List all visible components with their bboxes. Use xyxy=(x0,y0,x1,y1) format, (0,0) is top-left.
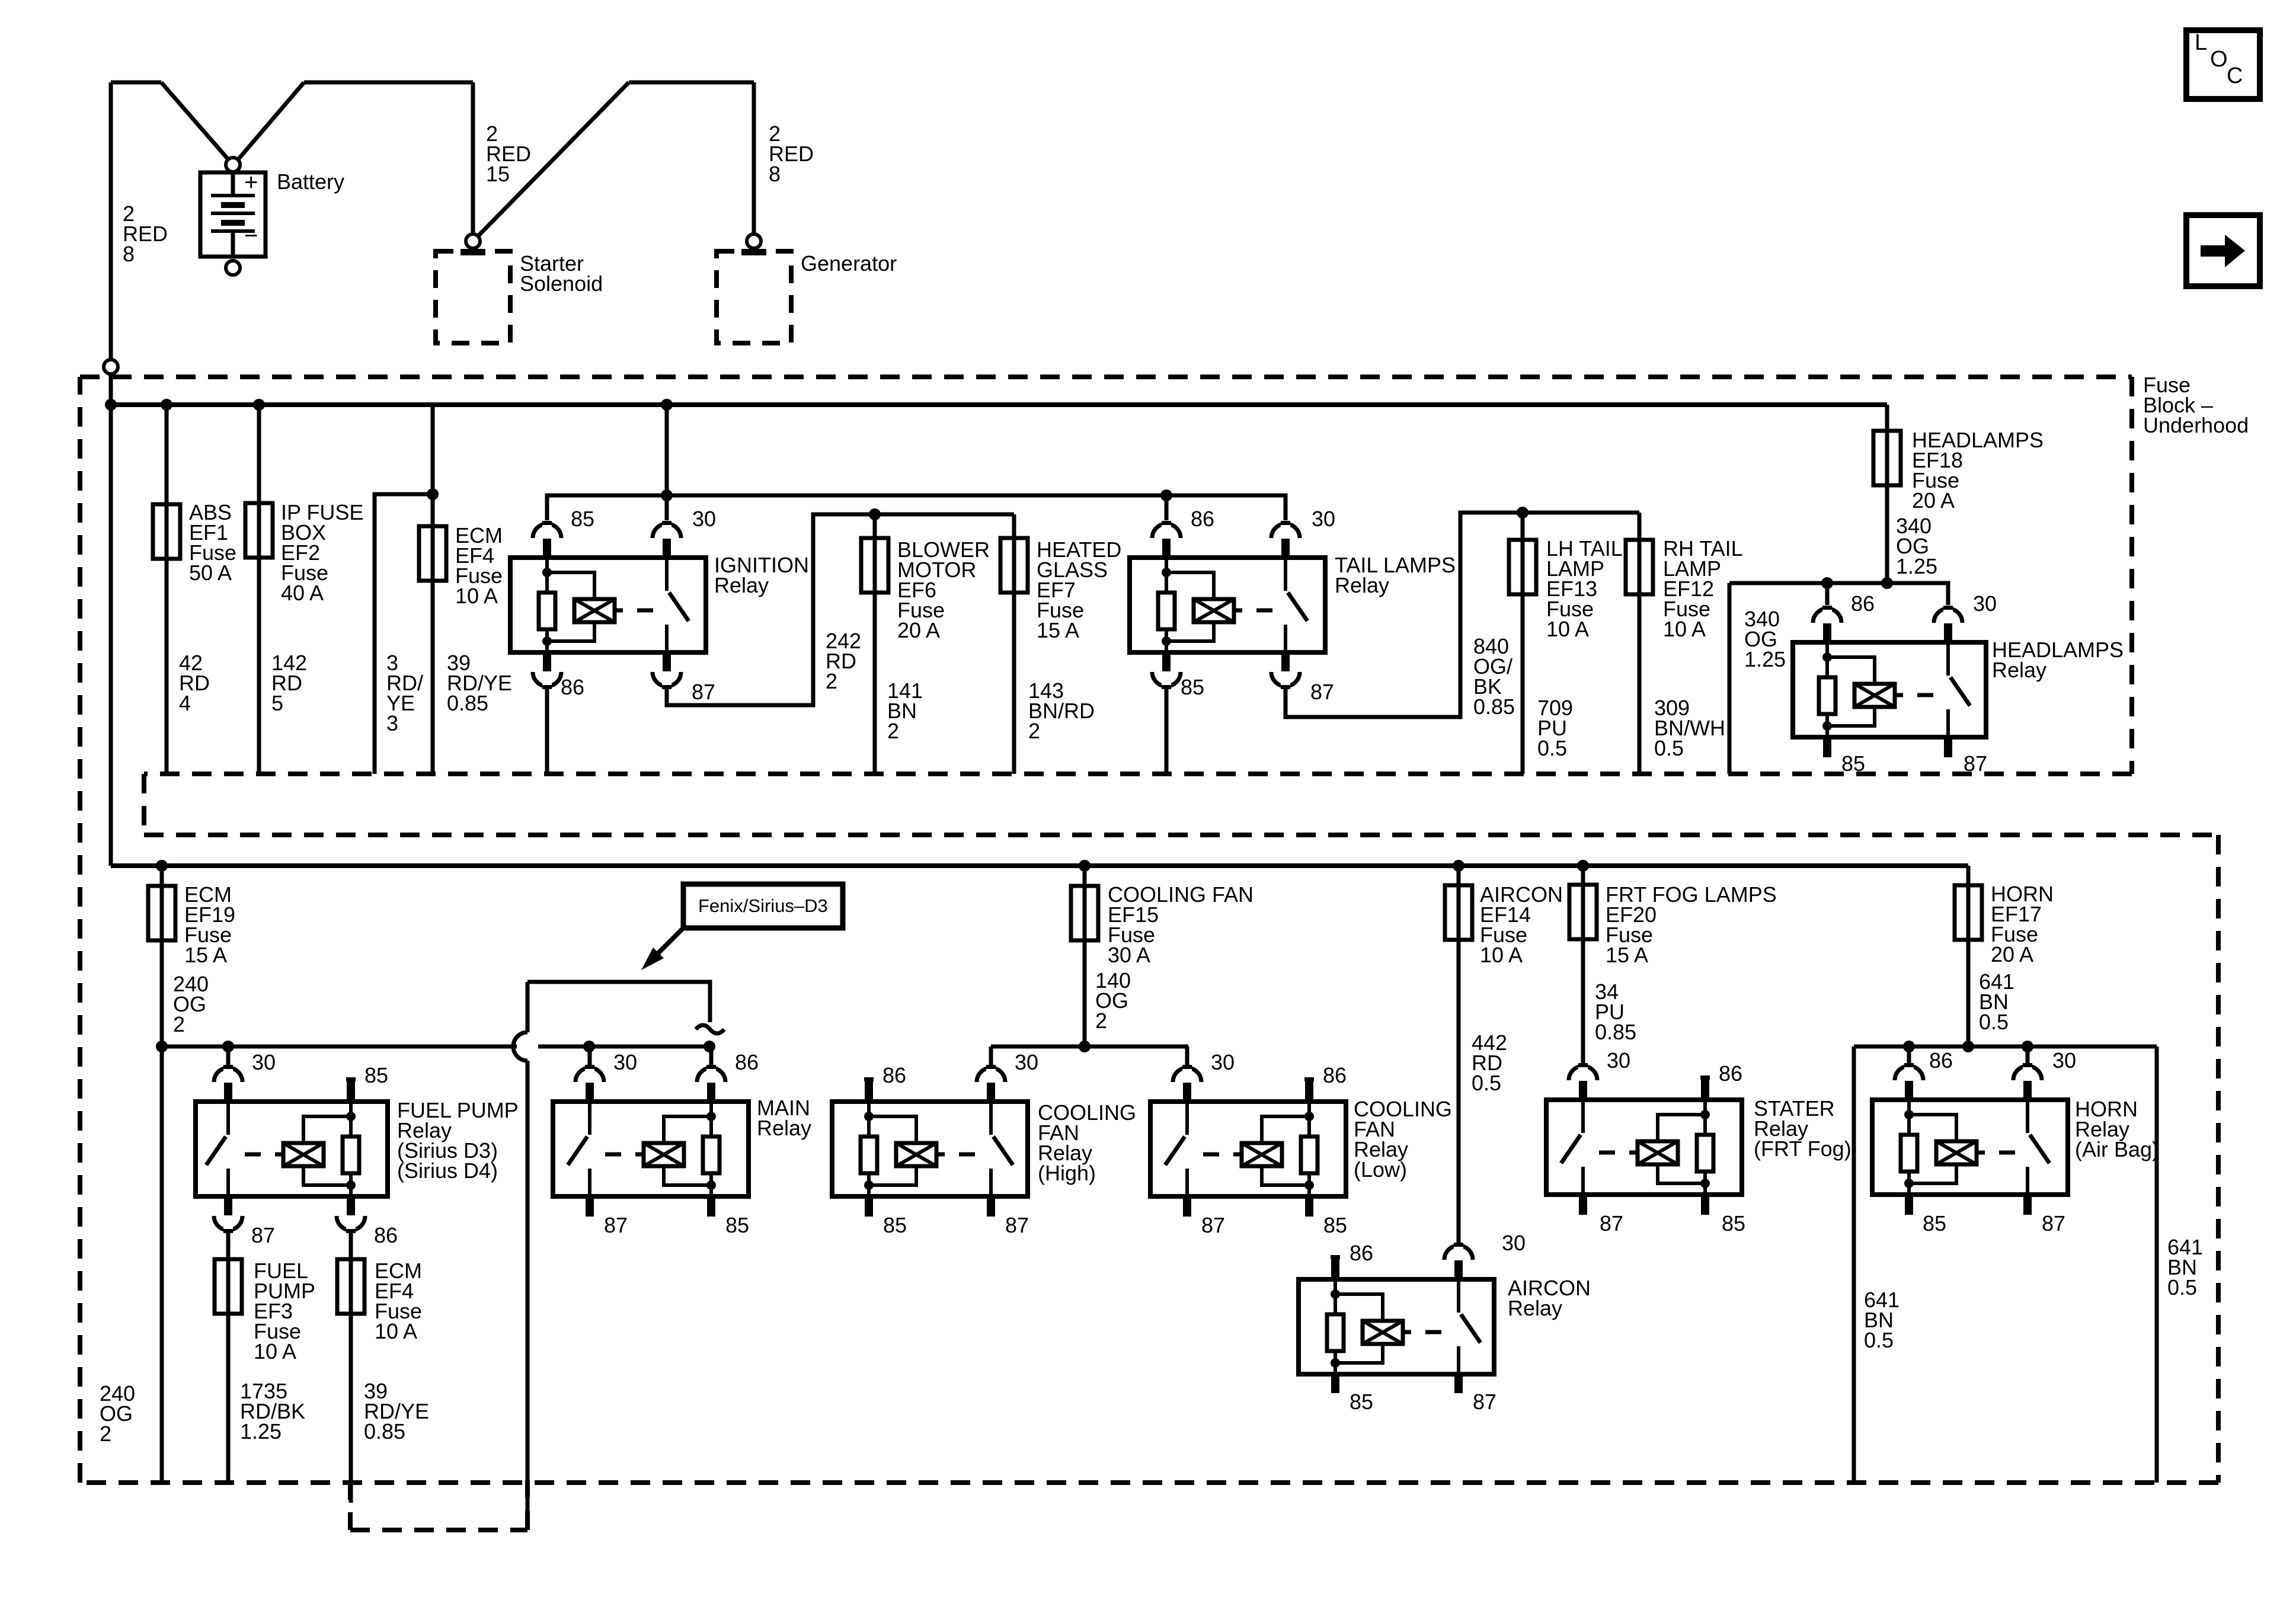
svg-text:86: 86 xyxy=(1929,1048,1953,1073)
svg-text:10 A: 10 A xyxy=(455,584,498,608)
svg-text:(Air Bag): (Air Bag) xyxy=(2075,1137,2159,1161)
svg-text:1.25: 1.25 xyxy=(1744,647,1786,671)
svg-text:15: 15 xyxy=(486,162,510,186)
svg-text:Relay: Relay xyxy=(1335,573,1389,597)
svg-text:Relay: Relay xyxy=(757,1116,811,1140)
svg-text:87: 87 xyxy=(1600,1211,1623,1235)
svg-text:0.5: 0.5 xyxy=(1654,736,1684,760)
svg-text:20 A: 20 A xyxy=(1991,942,2033,966)
svg-text:2: 2 xyxy=(100,1422,111,1446)
svg-text:87: 87 xyxy=(1201,1213,1225,1237)
svg-text:0.85: 0.85 xyxy=(447,691,488,715)
svg-text:20 A: 20 A xyxy=(897,618,940,642)
svg-text:Relay: Relay xyxy=(1992,658,2046,682)
svg-text:2: 2 xyxy=(1028,719,1040,743)
svg-text:85: 85 xyxy=(1923,1211,1946,1235)
svg-text:15 A: 15 A xyxy=(1606,943,1648,967)
svg-text:(Low): (Low) xyxy=(1354,1157,1407,1182)
svg-text:30: 30 xyxy=(1312,507,1335,531)
svg-text:0.5: 0.5 xyxy=(1537,736,1567,760)
svg-text:30: 30 xyxy=(1502,1231,1526,1255)
svg-text:85: 85 xyxy=(1722,1211,1745,1235)
svg-text:(High): (High) xyxy=(1038,1161,1096,1185)
svg-text:Relay: Relay xyxy=(714,573,769,597)
svg-text:0.5: 0.5 xyxy=(1472,1071,1501,1095)
svg-text:Underhood: Underhood xyxy=(2143,413,2249,437)
svg-text:2: 2 xyxy=(887,719,899,743)
svg-text:10 A: 10 A xyxy=(375,1319,417,1343)
svg-text:30: 30 xyxy=(692,507,716,531)
svg-text:C: C xyxy=(2227,63,2243,88)
svg-text:20 A: 20 A xyxy=(1912,488,1955,513)
svg-text:1.25: 1.25 xyxy=(240,1419,282,1443)
svg-text:85: 85 xyxy=(571,507,594,531)
svg-text:10 A: 10 A xyxy=(1663,617,1706,641)
svg-text:15 A: 15 A xyxy=(1037,618,1079,642)
svg-text:5: 5 xyxy=(271,691,283,715)
svg-text:Generator: Generator xyxy=(801,251,897,276)
svg-text:85: 85 xyxy=(1841,751,1865,776)
svg-text:0.85: 0.85 xyxy=(364,1419,405,1443)
svg-text:−: − xyxy=(244,223,258,249)
svg-text:+: + xyxy=(244,169,258,196)
svg-text:0.85: 0.85 xyxy=(1473,694,1515,719)
svg-text:0.5: 0.5 xyxy=(2167,1275,2197,1299)
svg-text:2: 2 xyxy=(1095,1009,1107,1033)
svg-text:87: 87 xyxy=(2042,1211,2065,1235)
svg-text:0.5: 0.5 xyxy=(1979,1010,2009,1034)
svg-text:86: 86 xyxy=(882,1063,906,1087)
svg-text:86: 86 xyxy=(1191,507,1214,531)
svg-text:30: 30 xyxy=(1607,1048,1630,1073)
svg-text:10 A: 10 A xyxy=(1480,943,1523,967)
svg-text:30: 30 xyxy=(1015,1050,1038,1074)
svg-text:L: L xyxy=(2195,30,2207,55)
svg-text:Battery: Battery xyxy=(277,169,344,194)
svg-text:85: 85 xyxy=(1181,675,1204,699)
svg-text:(FRT Fog): (FRT Fog) xyxy=(1754,1137,1851,1161)
svg-text:85: 85 xyxy=(364,1063,388,1087)
svg-text:(Sirius D4): (Sirius D4) xyxy=(397,1158,498,1183)
svg-text:2: 2 xyxy=(173,1012,185,1036)
svg-text:O: O xyxy=(2210,47,2228,72)
svg-text:30: 30 xyxy=(252,1050,276,1074)
svg-text:0.85: 0.85 xyxy=(1595,1020,1636,1044)
svg-text:87: 87 xyxy=(692,680,715,704)
svg-text:0.5: 0.5 xyxy=(1864,1328,1894,1352)
svg-text:86: 86 xyxy=(1323,1063,1347,1087)
svg-text:2: 2 xyxy=(826,669,837,693)
svg-text:10 A: 10 A xyxy=(1546,617,1589,641)
svg-text:30: 30 xyxy=(1211,1050,1235,1074)
svg-text:8: 8 xyxy=(123,242,135,266)
svg-text:1.25: 1.25 xyxy=(1896,554,1937,578)
svg-text:86: 86 xyxy=(374,1223,398,1247)
svg-text:85: 85 xyxy=(883,1213,907,1237)
svg-text:30: 30 xyxy=(613,1050,637,1074)
svg-text:30: 30 xyxy=(2052,1048,2076,1073)
svg-text:86: 86 xyxy=(1851,591,1875,616)
svg-text:8: 8 xyxy=(769,162,781,186)
svg-text:87: 87 xyxy=(604,1213,628,1237)
svg-text:87: 87 xyxy=(1964,751,1987,776)
svg-text:87: 87 xyxy=(1005,1213,1029,1237)
svg-text:30: 30 xyxy=(1973,591,1997,616)
svg-text:15 A: 15 A xyxy=(184,943,227,967)
svg-text:87: 87 xyxy=(1473,1390,1496,1414)
svg-text:86: 86 xyxy=(1350,1241,1373,1265)
svg-text:85: 85 xyxy=(1323,1213,1347,1237)
svg-text:3: 3 xyxy=(386,711,398,735)
svg-text:50 A: 50 A xyxy=(189,561,232,585)
svg-text:86: 86 xyxy=(561,675,584,699)
svg-text:85: 85 xyxy=(725,1213,749,1237)
svg-text:Fenix/Sirius–D3: Fenix/Sirius–D3 xyxy=(698,895,828,916)
svg-text:10 A: 10 A xyxy=(254,1339,296,1363)
svg-text:Solenoid: Solenoid xyxy=(520,271,603,296)
svg-text:86: 86 xyxy=(735,1050,759,1074)
svg-text:Relay: Relay xyxy=(1508,1296,1562,1320)
svg-text:87: 87 xyxy=(1310,680,1334,704)
svg-text:85: 85 xyxy=(1350,1390,1373,1414)
svg-text:86: 86 xyxy=(1719,1061,1742,1086)
svg-text:30 A: 30 A xyxy=(1108,943,1150,967)
svg-text:40 A: 40 A xyxy=(281,581,324,605)
svg-text:87: 87 xyxy=(251,1223,275,1247)
svg-text:4: 4 xyxy=(179,691,191,715)
